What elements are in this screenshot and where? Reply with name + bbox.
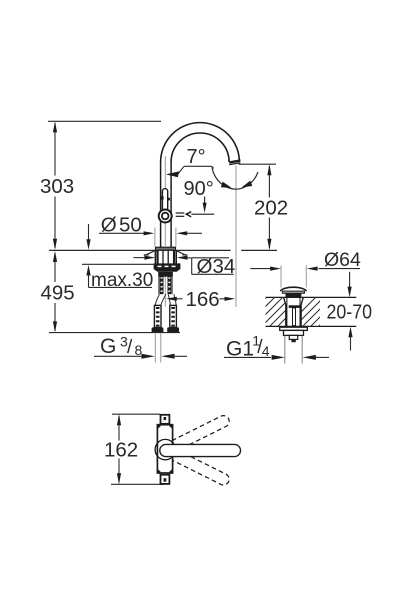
deck break mark right <box>176 250 188 255</box>
swivel arc right arrowhead <box>242 181 253 188</box>
dimension 303 line <box>54 123 56 248</box>
body corner marks <box>158 425 173 473</box>
dimension 202 arrows <box>267 164 271 175</box>
mounting nut <box>154 263 181 269</box>
max.30 upper arrow <box>86 224 90 250</box>
supply stud left nut <box>152 327 164 333</box>
7deg arrowhead <box>166 171 179 177</box>
faucet center line <box>164 156 166 307</box>
dome seal ring <box>286 293 302 297</box>
7deg leader line <box>178 166 214 174</box>
nut thread marks <box>158 265 176 267</box>
svg-text:162: 162 <box>104 438 138 461</box>
svg-text:202: 202 <box>254 196 288 219</box>
G3/8 arrows <box>142 354 155 359</box>
svg-text:Ø34: Ø34 <box>197 255 236 278</box>
G3/8 underline <box>94 355 151 357</box>
O34 label box <box>192 258 234 275</box>
svg-text:495: 495 <box>41 282 75 305</box>
threaded shank walls <box>158 250 174 263</box>
svg-text:166: 166 <box>186 288 220 311</box>
base flange <box>156 247 176 250</box>
dimension 202 line <box>268 166 270 249</box>
pop-up mechanism tee <box>289 305 300 325</box>
G1 1/4 underline <box>224 356 271 358</box>
dimension O50 extension lines <box>155 228 176 247</box>
O50 right arrow <box>176 231 202 235</box>
lever position symbol (dashes, open arrow and bar) <box>176 212 215 217</box>
svg-text:20-70: 20-70 <box>327 301 373 323</box>
20-70 lower arrow <box>348 327 352 351</box>
dimension 166 arrows <box>166 297 235 301</box>
countertop section top line <box>266 296 357 298</box>
svg-text:G: G <box>100 335 116 358</box>
spout outlet tip (aerator) <box>229 159 240 164</box>
top view escutcheon circle <box>155 439 175 459</box>
hose coupling dark band <box>158 272 173 277</box>
O34 arrows <box>144 256 155 260</box>
drain nub <box>291 339 295 342</box>
svg-text:/: / <box>127 337 133 358</box>
dimension 162 line <box>118 416 120 483</box>
spout right down pipe <box>229 159 239 162</box>
90-degree lever arrow <box>203 197 207 214</box>
top view lower tab <box>161 475 170 484</box>
dimension 303 top extension line <box>48 120 161 122</box>
drain tailpipe <box>285 336 302 364</box>
O64 extension lines <box>281 265 306 287</box>
G3/8 extension lines <box>155 334 161 363</box>
countertop section bottom line <box>266 325 357 327</box>
O64 dimension right arrow <box>307 267 360 271</box>
dimension 162 arrows <box>117 414 121 425</box>
deck hole wall left <box>154 250 156 263</box>
dimension 495 line <box>54 253 56 331</box>
supply stud right <box>170 305 177 327</box>
swivel range arc <box>212 168 258 190</box>
swivel arc left arrowhead <box>221 182 232 188</box>
deck surface line <box>49 249 277 251</box>
top view dashed spout lower <box>160 444 231 487</box>
cartridge joint circle <box>159 210 172 223</box>
svg-text:G1: G1 <box>226 337 254 360</box>
countertop hatch left <box>258 296 315 334</box>
spout stream center line <box>235 165 237 307</box>
svg-text:4: 4 <box>262 343 270 359</box>
supply stud left <box>154 305 161 327</box>
label G3/8 <box>100 334 143 359</box>
O50 left leader and arrow <box>99 231 154 235</box>
flexible hose right <box>169 272 172 294</box>
lever pivot marks <box>161 196 164 199</box>
drain body through deck <box>284 297 304 326</box>
drain washer <box>280 327 308 330</box>
supply stud right nut <box>167 327 179 333</box>
top view body outline <box>157 425 172 473</box>
svg-text:Ø64: Ø64 <box>324 249 361 271</box>
hose transition curves <box>155 294 176 305</box>
dimension 202 extension line <box>239 163 277 165</box>
top view dashed spout upper <box>160 414 231 457</box>
countertop hatch right <box>279 297 348 334</box>
drain locknut <box>284 330 304 335</box>
joint inner circle <box>162 213 169 220</box>
O64 dimension left arrow <box>250 267 281 271</box>
drain dome cap <box>280 287 306 291</box>
spout left riser pipe <box>161 162 172 247</box>
dimension O34 leader <box>134 257 192 259</box>
lever handle rod <box>162 189 167 211</box>
nut taper <box>154 269 181 272</box>
label G1 1/4 <box>226 332 270 360</box>
deck underside line <box>82 263 155 265</box>
G1 1/4 arrows <box>272 355 285 360</box>
20-70 upper arrow <box>348 272 352 297</box>
shank supply tubes <box>163 250 168 263</box>
svg-text:303: 303 <box>40 175 74 198</box>
dimension 495 arrows <box>53 251 57 262</box>
top view spout bar <box>160 444 241 456</box>
svg-text:7°: 7° <box>187 146 206 168</box>
dome rim <box>282 291 304 293</box>
flexible hose left <box>159 272 162 294</box>
dimension 495 bottom extension line <box>49 332 180 334</box>
top view upper tab <box>161 415 170 424</box>
dimension 303 arrows <box>53 121 57 132</box>
max.30 lower arrow <box>86 265 90 288</box>
deck hole wall right <box>175 250 177 263</box>
top view extension lines <box>111 414 164 484</box>
spout arc <box>161 123 240 162</box>
svg-text:90°: 90° <box>184 178 214 200</box>
max.30 underline <box>89 286 153 288</box>
deck break mark left <box>144 250 156 255</box>
drain step <box>289 335 297 339</box>
